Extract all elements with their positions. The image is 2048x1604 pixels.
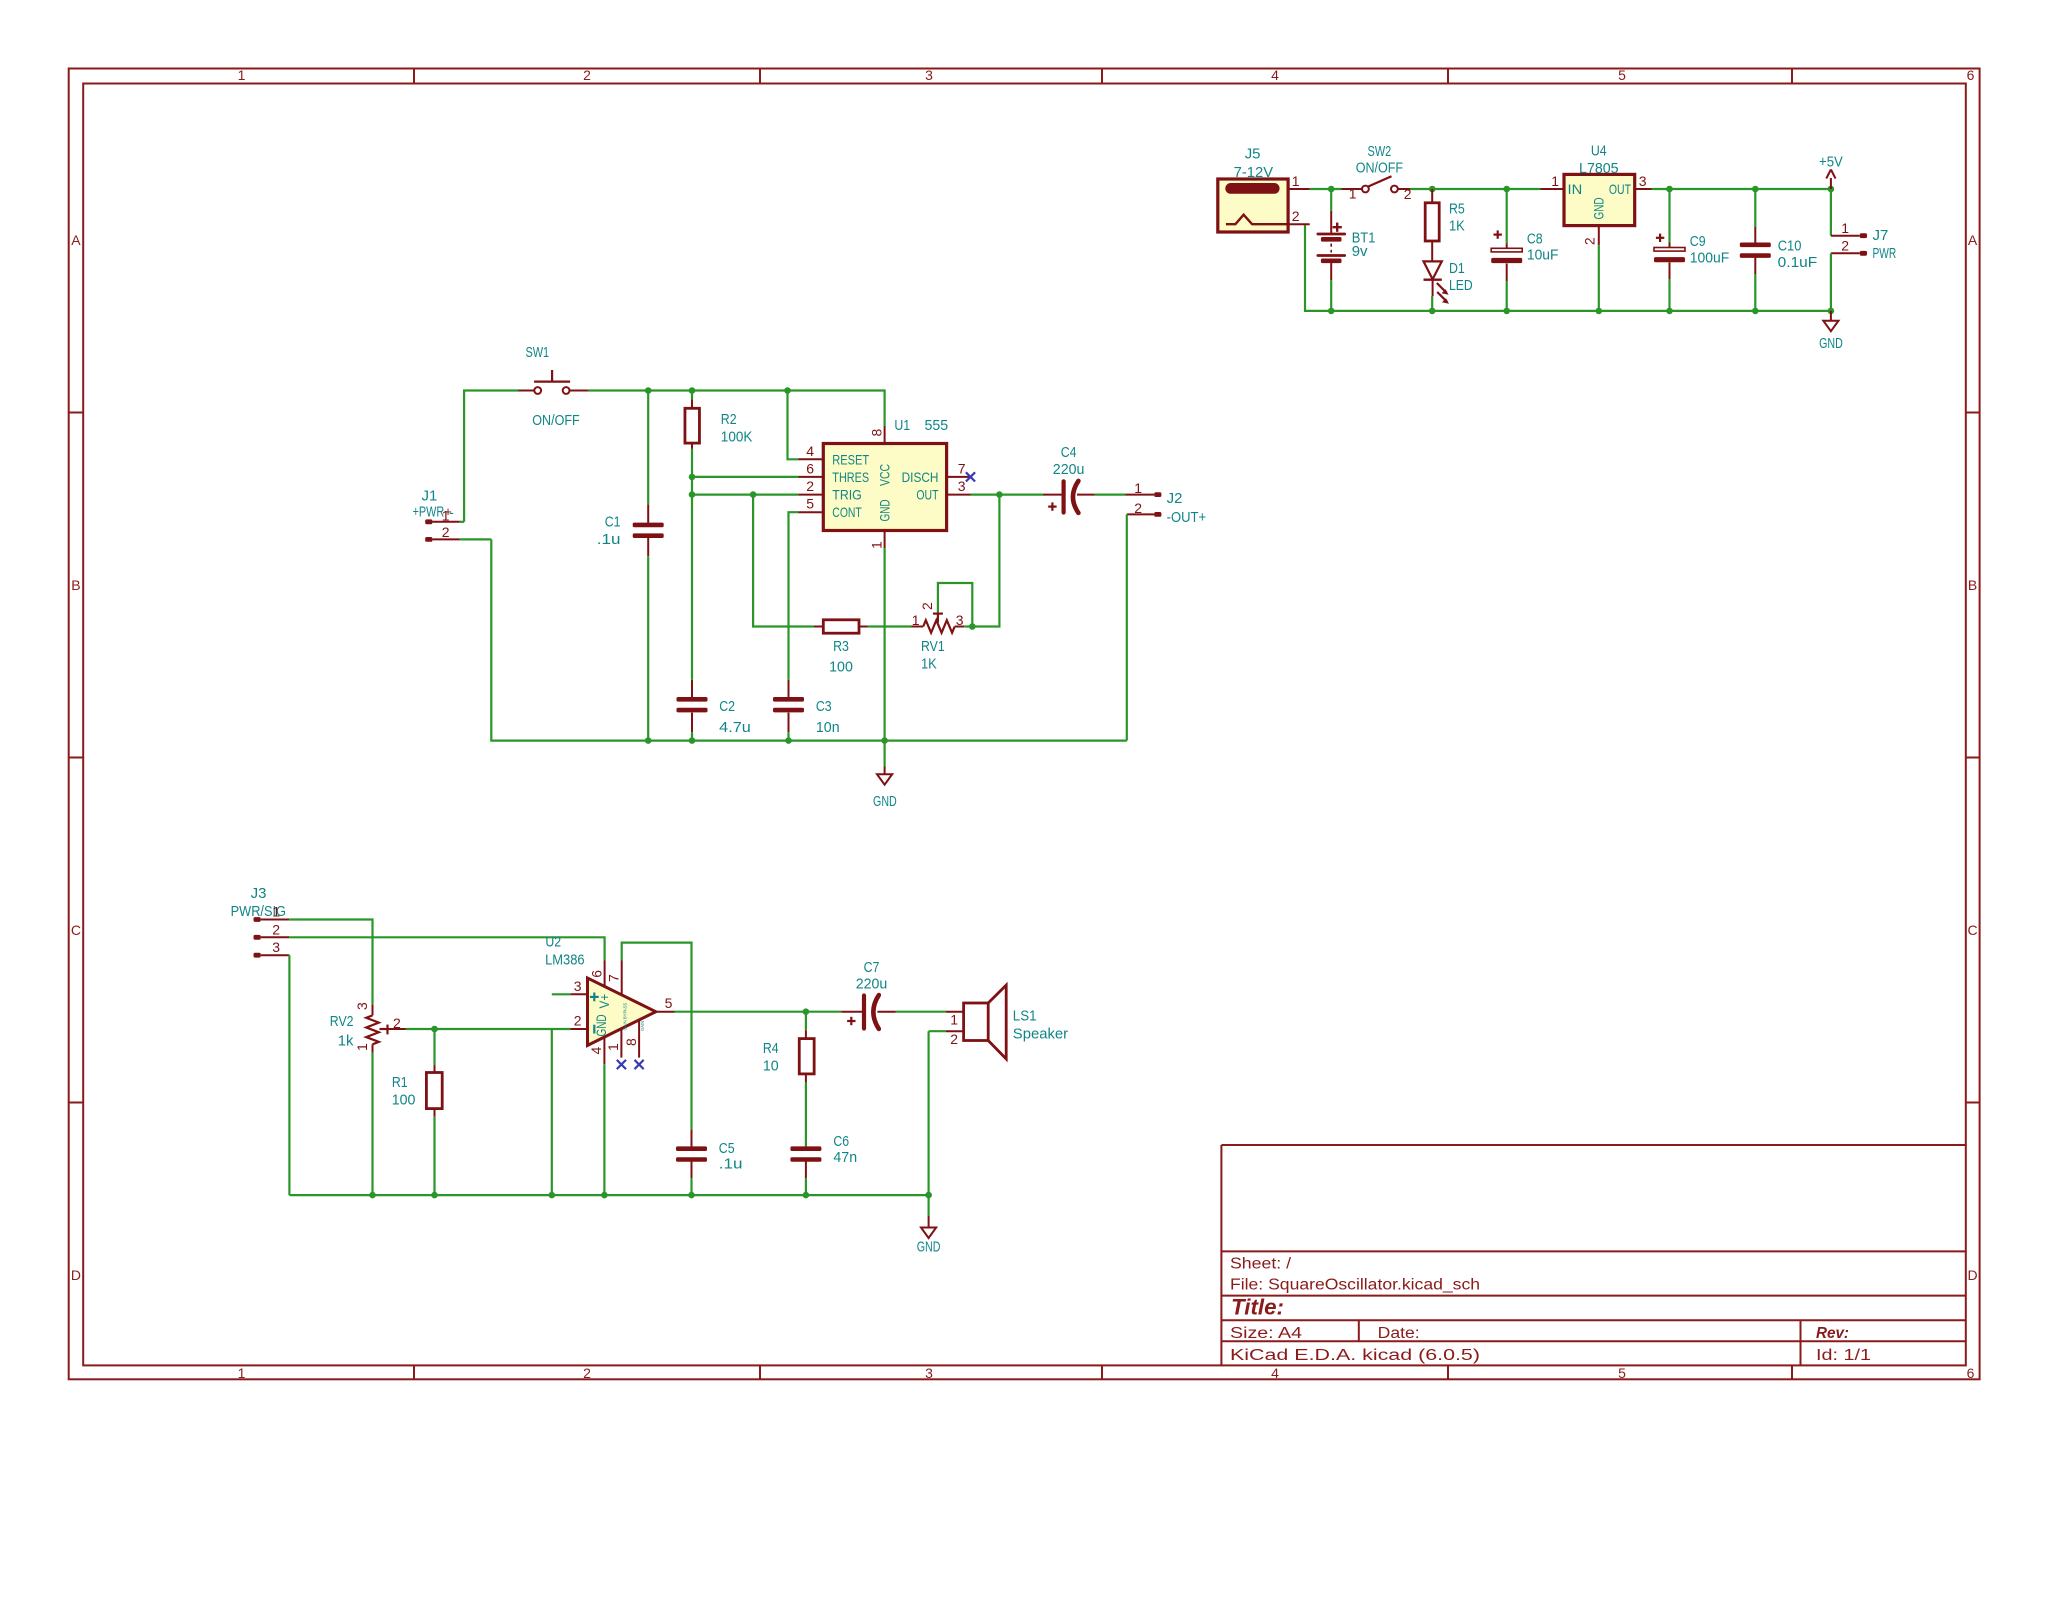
pin 8 GAIN of U2 — [623, 1021, 639, 1058]
svg-text:1K: 1K — [921, 656, 937, 673]
wire LM386 bottom rail — [289, 1194, 928, 1196]
svg-text:9v: 9v — [1352, 243, 1368, 260]
svg-text:GAIN: GAIN — [640, 1020, 646, 1031]
junction LM386 rail LS1 — [925, 1192, 932, 1199]
svg-text:V+: V+ — [596, 994, 612, 1009]
svg-text:C: C — [71, 922, 81, 938]
svg-text:2: 2 — [1404, 186, 1412, 202]
label C3 — [816, 698, 832, 715]
svg-text:2: 2 — [919, 602, 935, 610]
value PWR/SIG of J3 — [231, 903, 286, 920]
junction LM386 rail C5 — [688, 1192, 695, 1199]
value 100 of R1 — [392, 1092, 416, 1109]
junction bottom rail x=1830.9 — [1828, 308, 1835, 315]
wire OUT to RV1 — [972, 495, 999, 627]
connector J2 — [1126, 492, 1162, 740]
svg-text:RESET: RESET — [832, 451, 869, 467]
wire TRIG to R3 — [753, 495, 814, 627]
svg-text:5: 5 — [665, 995, 673, 1011]
svg-text:D: D — [71, 1267, 81, 1283]
junction C10 top — [1752, 186, 1759, 193]
value 47n of C6 — [833, 1149, 857, 1166]
svg-text:5: 5 — [1618, 1365, 1626, 1381]
value +PWR of J1 — [413, 504, 455, 521]
capacitor C3 — [773, 680, 804, 741]
wire OUT net — [971, 494, 1044, 496]
svg-text:TRIG: TRIG — [832, 487, 862, 503]
label U1 — [894, 417, 910, 434]
pin 2 of LS1 — [950, 1031, 958, 1047]
value .1u of C1 — [597, 531, 621, 548]
pin 1 of LS1 — [950, 1012, 958, 1028]
pin 1 of RV1 — [912, 612, 920, 628]
svg-text:3: 3 — [925, 1365, 933, 1381]
svg-text:OUT: OUT — [916, 487, 938, 503]
no-connect X at DISCH — [966, 472, 975, 481]
svg-text:1k: 1k — [338, 1032, 354, 1049]
label J2 — [1167, 490, 1183, 507]
pin 2 inverting of U2 — [570, 1013, 587, 1029]
pin 1 of J5 — [1288, 173, 1310, 189]
svg-text:3: 3 — [272, 939, 280, 955]
value 1K of RV1 — [921, 656, 937, 673]
label C9 — [1690, 233, 1706, 250]
label LS1 — [1013, 1007, 1037, 1024]
value -OUT+ of J2 — [1167, 509, 1207, 526]
svg-text:8: 8 — [868, 429, 884, 437]
value 4.7u of C2 — [719, 719, 751, 736]
value 220u of C4 — [1053, 461, 1085, 478]
svg-text:SW2: SW2 — [1368, 143, 1392, 160]
svg-text:2: 2 — [583, 1365, 591, 1381]
svg-text:1: 1 — [1349, 186, 1357, 202]
op-amp U2 LM386 — [588, 978, 656, 1045]
svg-text:GND: GND — [1819, 335, 1843, 352]
svg-text:7-12V: 7-12V — [1234, 164, 1274, 181]
pin 2 of RV1 — [919, 602, 935, 610]
value 1K of R5 — [1449, 218, 1465, 235]
svg-text:File: SquareOscillator.kicad_s: File: SquareOscillator.kicad_sch — [1230, 1277, 1480, 1294]
svg-text:GND: GND — [917, 1239, 941, 1256]
frame border — [69, 67, 1980, 1381]
wire inverting input to rail — [551, 1029, 553, 1195]
svg-text:DISCH: DISCH — [902, 469, 939, 485]
svg-text:1: 1 — [912, 612, 920, 628]
svg-text:555: 555 — [925, 417, 949, 434]
value 7-12V — [1234, 164, 1274, 181]
svg-text:1: 1 — [238, 67, 246, 83]
pin 2 of SW2 — [1404, 186, 1412, 202]
svg-text:C5: C5 — [719, 1140, 735, 1157]
switch SW2 — [1342, 176, 1411, 192]
junction C1 top — [645, 387, 652, 394]
svg-text:D1: D1 — [1449, 260, 1465, 277]
label J1 — [422, 488, 438, 505]
pin 3 OUT of U4 — [1635, 173, 1652, 189]
svg-text:7: 7 — [958, 460, 966, 476]
junction RV1 pin3 — [969, 623, 976, 630]
svg-text:Sheet: /: Sheet: / — [1230, 1256, 1292, 1273]
svg-text:2: 2 — [806, 478, 814, 494]
svg-text:1: 1 — [605, 1043, 621, 1051]
svg-text:ON/OFF: ON/OFF — [1356, 159, 1403, 176]
svg-text:U4: U4 — [1591, 142, 1607, 159]
pin 3 of RV1 — [956, 612, 964, 628]
svg-text:B: B — [1968, 577, 1977, 593]
pin 1 of RV2 — [354, 1043, 370, 1051]
capacitor C2 — [677, 680, 708, 741]
svg-text:C8: C8 — [1527, 231, 1543, 248]
svg-text:-OUT+: -OUT+ — [1167, 509, 1207, 526]
junction R1 top — [431, 1026, 438, 1033]
wire 555 top rail — [464, 391, 884, 522]
junction BT1 top — [1328, 186, 1335, 193]
svg-text:KiCad E.D.A. kicad (6.0.5): KiCad E.D.A. kicad (6.0.5) — [1230, 1347, 1480, 1364]
LED D1 — [1424, 261, 1450, 311]
wire GND bottom rail — [1305, 224, 1831, 311]
svg-text:220u: 220u — [1053, 461, 1085, 478]
svg-text:8: 8 — [623, 1038, 639, 1046]
svg-text:Rev:: Rev: — [1816, 1325, 1849, 1342]
svg-text:C1: C1 — [605, 513, 621, 530]
pin 2 of J3 — [272, 921, 280, 937]
svg-text:ON/OFF: ON/OFF — [532, 412, 579, 429]
svg-text:1: 1 — [354, 1043, 370, 1051]
svg-text:1: 1 — [1841, 220, 1849, 236]
pin 3 of J3 — [272, 939, 280, 955]
svg-text:1: 1 — [1134, 480, 1142, 496]
label C1 — [605, 513, 621, 530]
svg-text:THRES: THRES — [832, 469, 869, 485]
svg-text:2: 2 — [950, 1031, 958, 1047]
ground symbol GND (LM386) — [917, 1195, 941, 1255]
junction LM386 rail U2 GND — [601, 1192, 608, 1199]
svg-text:GAIN BYPASS: GAIN BYPASS — [622, 1003, 628, 1031]
svg-text:1: 1 — [272, 904, 280, 920]
svg-text:C6: C6 — [833, 1133, 849, 1150]
svg-text:D: D — [1968, 1267, 1978, 1283]
wire + input — [552, 993, 571, 995]
value Speaker of LS1 — [1013, 1025, 1068, 1042]
svg-text:C7: C7 — [864, 959, 880, 976]
label J5 — [1245, 146, 1261, 163]
junction bottom rail x=1331.2 — [1328, 308, 1335, 315]
junction +5V node — [1828, 186, 1835, 193]
svg-text:GND: GND — [1591, 197, 1607, 219]
svg-text:6: 6 — [1967, 1365, 1975, 1381]
svg-text:J2: J2 — [1167, 490, 1183, 507]
svg-text:2: 2 — [272, 921, 280, 937]
svg-text:A: A — [1968, 232, 1978, 248]
junction LM386 rail RV2 — [369, 1192, 376, 1199]
label R4 — [763, 1040, 779, 1057]
pin 2 of J1 — [442, 524, 450, 540]
wire VIN top rail — [1310, 188, 1541, 190]
junction 555 rail U1 GND — [881, 737, 888, 744]
svg-text:1: 1 — [868, 541, 884, 549]
junction THRES — [689, 474, 696, 481]
label C2 — [719, 698, 735, 715]
svg-text:C10: C10 — [1778, 237, 1802, 254]
svg-text:+PWR: +PWR — [413, 504, 445, 521]
junction 555 rail C1 — [645, 737, 652, 744]
pin 1 of J3 — [272, 904, 280, 920]
resistor R1 — [426, 1029, 442, 1195]
svg-text:GND: GND — [593, 1014, 609, 1036]
svg-text:100uF: 100uF — [1690, 249, 1730, 266]
svg-text:C4: C4 — [1061, 444, 1077, 461]
pin 1 of J7 — [1841, 220, 1849, 236]
svg-text:4: 4 — [1271, 67, 1279, 83]
value 10uF of C8 — [1527, 247, 1559, 264]
value 10n of C3 — [816, 719, 840, 736]
wire CONT net — [789, 512, 799, 680]
capacitor C4 polarized — [1043, 481, 1126, 513]
svg-text:U1: U1 — [894, 417, 910, 434]
svg-text:RV1: RV1 — [921, 638, 945, 655]
label SW2 — [1368, 143, 1392, 160]
svg-text:2: 2 — [574, 1013, 582, 1029]
value 1k of RV2 — [338, 1032, 354, 1049]
svg-text:OUT: OUT — [1609, 181, 1631, 197]
label R1 — [392, 1074, 408, 1091]
wire J3 pin2 to V+ — [289, 937, 604, 960]
svg-text:RV2: RV2 — [330, 1013, 354, 1030]
label U2 — [545, 933, 561, 950]
label C8 — [1527, 231, 1543, 248]
pin 3 noninverting of U2 — [570, 978, 587, 994]
regulator U4 L7805 — [1564, 174, 1635, 225]
value 100 of R3 — [829, 659, 853, 676]
svg-text:10uF: 10uF — [1527, 247, 1559, 264]
resistor R4 — [799, 1012, 814, 1147]
svg-text:4: 4 — [1271, 1365, 1279, 1381]
svg-text:100K: 100K — [721, 429, 753, 446]
label R5 — [1449, 201, 1465, 218]
value PWR of J7 — [1873, 245, 1897, 262]
capacitor C9 — [1654, 189, 1685, 311]
svg-text:3: 3 — [925, 67, 933, 83]
svg-text:L7805: L7805 — [1579, 160, 1619, 177]
svg-text:2: 2 — [1134, 500, 1142, 516]
svg-text:R2: R2 — [721, 411, 737, 428]
wire TRIG net — [692, 494, 798, 496]
resistor R3 — [814, 620, 912, 633]
pin 1 of SW2 — [1349, 186, 1357, 202]
pin 1 GAIN of U2 — [605, 1029, 621, 1058]
svg-text:10n: 10n — [816, 719, 840, 736]
svg-text:R4: R4 — [763, 1040, 779, 1057]
junction R5 top — [1429, 186, 1436, 193]
svg-text:3: 3 — [1639, 173, 1647, 189]
junction C9 top — [1666, 186, 1673, 193]
svg-text:J1: J1 — [422, 488, 438, 505]
junction TRIG at C2 column — [689, 491, 696, 498]
svg-text:C9: C9 — [1690, 233, 1706, 250]
junction 555 rail C3 — [785, 737, 792, 744]
svg-text:LS1: LS1 — [1013, 1007, 1037, 1024]
svg-text:1: 1 — [238, 1365, 246, 1381]
connector J1 — [425, 519, 491, 541]
svg-text:220u: 220u — [856, 976, 888, 993]
value 100uF of C9 — [1690, 249, 1730, 266]
svg-text:5: 5 — [1618, 67, 1626, 83]
svg-text:1: 1 — [950, 1012, 958, 1028]
svg-text:100: 100 — [829, 659, 853, 676]
svg-text:GND: GND — [873, 793, 897, 810]
pin 1 of J2 — [1134, 480, 1142, 496]
svg-text:0.1uF: 0.1uF — [1778, 254, 1818, 271]
svg-text:J5: J5 — [1245, 146, 1261, 163]
resistor R5 — [1425, 189, 1439, 261]
pin 1 IN of U4 — [1541, 173, 1565, 189]
pin 3 OUT of U1 — [946, 478, 971, 495]
svg-text:6: 6 — [806, 460, 814, 476]
svg-text:J7: J7 — [1873, 227, 1889, 244]
pin 4 RESET of U1 — [798, 443, 824, 460]
wire BYPASS loop to C5 — [622, 943, 692, 1130]
svg-text:CONT: CONT — [832, 504, 862, 520]
pin 2 GND of U4 — [1582, 226, 1599, 311]
svg-text:GND: GND — [877, 499, 893, 521]
wire +5V top rail — [1652, 188, 1831, 190]
junction bottom rail x=1755.3 — [1752, 308, 1759, 315]
wire wiper to inverting input — [406, 1028, 570, 1030]
value L7805 — [1579, 160, 1619, 177]
value .1u of C5 — [719, 1156, 743, 1173]
pin 1 GND of U1 — [868, 531, 884, 741]
svg-text:1: 1 — [1551, 173, 1559, 189]
svg-text:2: 2 — [583, 67, 591, 83]
junction LM386 rail R1 — [431, 1192, 438, 1199]
value 0.1uF of C10 — [1778, 254, 1818, 271]
label C6 — [833, 1133, 849, 1150]
svg-text:U2: U2 — [545, 933, 561, 950]
svg-text:.1u: .1u — [719, 1156, 743, 1173]
svg-text:3: 3 — [958, 478, 966, 494]
capacitor C1 — [633, 391, 664, 741]
junction TRIG to R3 drop — [750, 491, 757, 498]
svg-text:2: 2 — [1292, 208, 1300, 224]
label J3 — [251, 885, 267, 902]
pin 2 of J7 — [1841, 238, 1849, 254]
value 220u of C7 — [856, 976, 888, 993]
svg-text:.1u: .1u — [597, 531, 621, 548]
capacitor C7 polarized — [841, 995, 946, 1029]
switch SW1 pushbutton — [519, 370, 589, 394]
svg-text:J3: J3 — [251, 885, 267, 902]
connector J5 barrel jack — [1218, 179, 1288, 232]
junction R4 top — [803, 1008, 810, 1015]
pin 6 V+ of U2 — [588, 960, 604, 986]
capacitor C8 — [1491, 189, 1522, 311]
value ON/OFF of SW1 — [532, 412, 579, 429]
pin 7 DISCH of U1 — [946, 460, 971, 477]
potentiometer RV2 — [366, 1004, 406, 1195]
svg-text:LM386: LM386 — [545, 952, 585, 969]
value 555 — [925, 417, 949, 434]
svg-text:100: 100 — [392, 1092, 416, 1109]
junction bottom rail x=1506.7 — [1503, 308, 1510, 315]
svg-text:4: 4 — [588, 1047, 604, 1055]
wire THRES net — [692, 476, 798, 478]
ground symbol GND (power) — [1819, 311, 1843, 352]
wire timing cap net — [691, 477, 693, 680]
pin 2 of RV2 — [393, 1015, 401, 1031]
junction 555 rail C2 — [689, 737, 696, 744]
svg-text:10: 10 — [763, 1058, 779, 1075]
svg-text:R5: R5 — [1449, 201, 1465, 218]
svg-text:C: C — [1968, 922, 1978, 938]
label C7 — [864, 959, 880, 976]
no-connect X at pin 1 — [617, 1060, 626, 1069]
value LM386 — [545, 952, 585, 969]
svg-text:Size: A4: Size: A4 — [1230, 1325, 1302, 1342]
label C10 — [1778, 237, 1802, 254]
wire J3 pin3 to rail — [288, 955, 290, 1195]
label R3 — [833, 638, 849, 655]
svg-text:5: 5 — [806, 496, 814, 512]
pin 7 BYPASS of U2 — [605, 961, 621, 996]
power symbol +5V — [1819, 154, 1843, 190]
value ON/OFF of SW2 — [1356, 159, 1403, 176]
junction bottom rail x=1598.8 — [1596, 308, 1603, 315]
svg-text:R3: R3 — [833, 638, 849, 655]
potentiometer RV1 — [912, 583, 973, 633]
svg-text:6: 6 — [1967, 67, 1975, 83]
svg-text:1: 1 — [442, 507, 450, 523]
junction OUT — [996, 491, 1003, 498]
label SW1 — [525, 344, 549, 361]
svg-text:3: 3 — [354, 1002, 370, 1010]
svg-text:3: 3 — [574, 978, 582, 994]
pin 3 of RV2 — [354, 1002, 370, 1010]
battery BT1 — [1317, 189, 1347, 311]
label C4 — [1061, 444, 1077, 461]
wire output net — [675, 1011, 842, 1013]
speaker LS1 — [929, 985, 1007, 1195]
svg-text:6: 6 — [588, 970, 604, 978]
svg-text:PWR: PWR — [1873, 245, 1897, 262]
value LED of D1 — [1449, 277, 1473, 294]
svg-text:1: 1 — [1292, 173, 1300, 189]
title block — [1221, 1145, 1965, 1365]
svg-text:LED: LED — [1449, 277, 1473, 294]
capacitor C10 — [1740, 189, 1771, 311]
connector J7 — [1831, 189, 1867, 311]
pin 2 of J2 — [1134, 500, 1142, 516]
svg-text:+5V: +5V — [1819, 154, 1843, 171]
junction LM386 rail inv — [549, 1192, 556, 1199]
svg-text:2: 2 — [1841, 238, 1849, 254]
label RV2 — [330, 1013, 354, 1030]
wire J3 pin1 to RV2 — [289, 920, 372, 1005]
svg-text:Date:: Date: — [1378, 1325, 1420, 1342]
svg-text:2: 2 — [1582, 237, 1598, 245]
junction bottom rail x=1432.2 — [1429, 308, 1436, 315]
junction RESET drop — [784, 387, 791, 394]
capacitor C5 — [676, 1130, 707, 1196]
pin 2 of J5 — [1288, 208, 1310, 224]
resistor R2 — [685, 391, 700, 477]
label R2 — [721, 411, 737, 428]
svg-text:VCC: VCC — [877, 464, 893, 486]
svg-text:Speaker: Speaker — [1013, 1025, 1068, 1042]
pin 1 of J1 — [442, 507, 450, 523]
svg-text:4.7u: 4.7u — [719, 719, 751, 736]
value 100K of R2 — [721, 429, 753, 446]
junction R2 top — [689, 387, 696, 394]
